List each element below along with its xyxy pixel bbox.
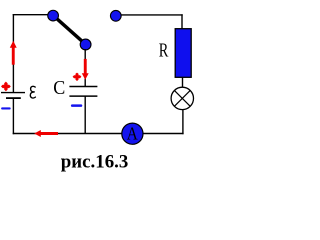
wire resistor to lamp	[182, 77, 184, 87]
battery long plate (+)	[1, 92, 25, 94]
battery label epsilon	[30, 86, 35, 98]
capacitor top plate	[69, 86, 97, 88]
switch lever	[54, 16, 85, 44]
current arrow down (capacitor charging)	[82, 59, 89, 80]
switch open contact node (right)	[110, 10, 121, 21]
svg-text:рис.16.3: рис.16.3	[61, 153, 129, 173]
current arrow up (left branch)	[10, 41, 17, 65]
battery plus label	[1, 82, 11, 92]
lamp	[171, 87, 193, 109]
battery EMF source	[1, 93, 25, 99]
switch moving contact node	[80, 39, 91, 50]
capacitor minus label	[71, 104, 82, 107]
wire bottom horizontal	[13, 133, 184, 135]
svg-text:C: C	[53, 77, 65, 99]
capacitor bottom plate	[69, 95, 97, 97]
wire left vertical	[12, 14, 14, 92]
wire capacitor to bottom wire	[84, 96, 86, 133]
capacitor plus label	[73, 73, 82, 81]
capacitor C	[69, 87, 97, 97]
svg-text:R: R	[159, 40, 169, 62]
battery short plate (-)	[6, 97, 21, 99]
wire top-left horizontal	[13, 14, 50, 16]
svg-text:A: A	[127, 124, 138, 144]
wire right vertical to resistor	[181, 14, 183, 29]
battery minus label	[1, 107, 11, 109]
wire lamp to bottom-right corner	[182, 110, 184, 134]
wire from right contact to top-right corner	[121, 14, 183, 16]
wire left-lower vertical	[12, 98, 14, 134]
current arrow left (bottom branch)	[34, 130, 58, 137]
resistor R	[175, 29, 191, 78]
switch contact node (pivot)	[48, 10, 59, 21]
wire switch to capacitor	[84, 49, 86, 87]
ammeter A1	[122, 123, 143, 144]
